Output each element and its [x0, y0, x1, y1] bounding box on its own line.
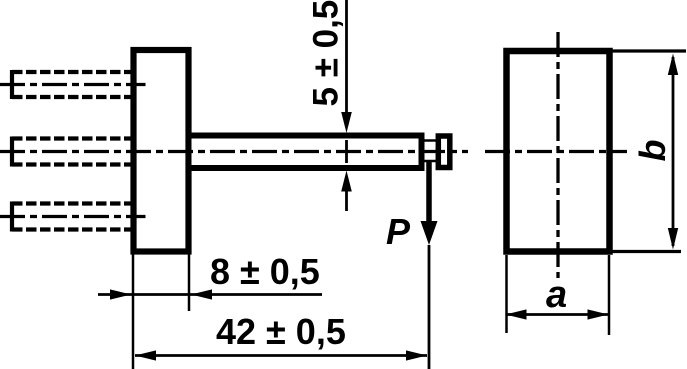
svg-text:b: b	[632, 140, 673, 162]
svg-text:42 ± 0,5: 42 ± 0,5	[216, 311, 346, 352]
svg-text:P: P	[386, 211, 411, 252]
svg-text:8 ± 0,5: 8 ± 0,5	[210, 251, 320, 292]
svg-text:a: a	[546, 274, 567, 316]
svg-text:5 ± 0,5: 5 ± 0,5	[307, 0, 346, 107]
